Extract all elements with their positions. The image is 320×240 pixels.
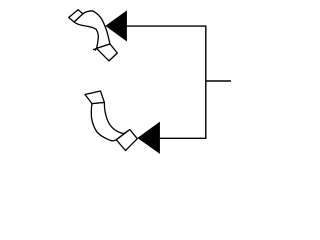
arrowhead (top) <box>106 11 127 41</box>
curved ribbon component (bottom), upper end cap <box>85 91 104 104</box>
lower end cap separation line overshoot (top ribbon) <box>93 48 98 50</box>
curved ribbon component (top), band body <box>74 11 110 49</box>
curved ribbon component (bottom), lower end cap <box>116 130 137 151</box>
wire: tree bracket (top branch, vertical trunk, bottom branch) <box>127 26 206 138</box>
band inner-edge tail crossing the cap edge (top ribbon) <box>95 48 97 50</box>
arrowhead (bottom) <box>138 122 160 153</box>
curved ribbon component (bottom), band body <box>91 102 130 141</box>
curved ribbon component (top), lower end cap <box>97 44 118 61</box>
curved ribbon component (top), upper end cap <box>69 10 83 22</box>
wire: middle stub to parent node <box>206 80 231 82</box>
